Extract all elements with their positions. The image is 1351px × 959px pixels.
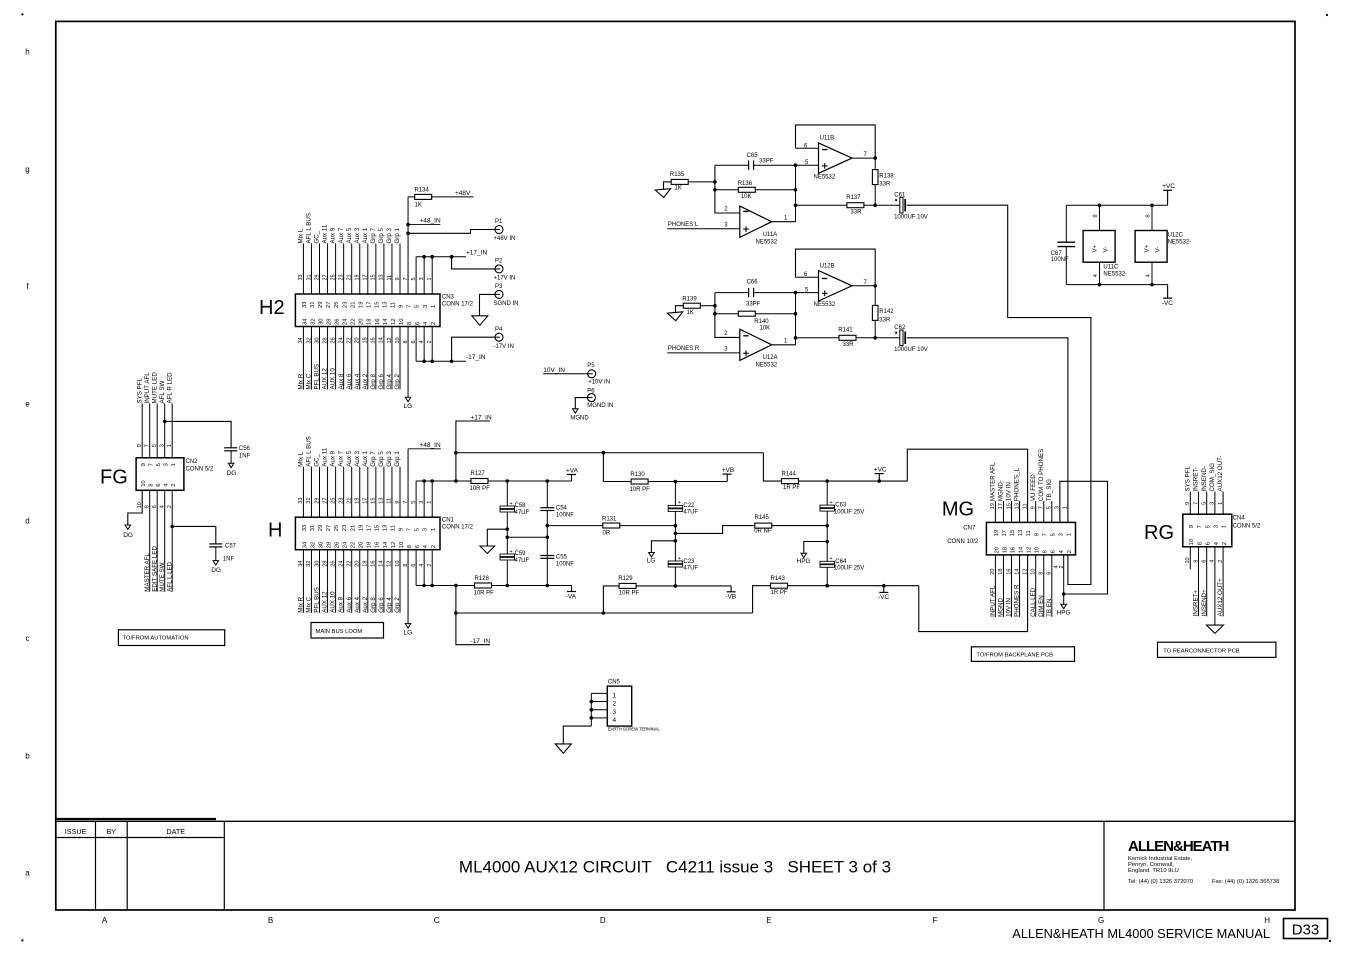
svg-text:C54: C54 <box>556 506 568 512</box>
svg-text:GC_: GC_ <box>314 453 321 466</box>
ground MGND <box>573 409 579 413</box>
svg-text:14: 14 <box>379 561 385 567</box>
svg-text:SYS PFL: SYS PFL <box>1184 465 1191 491</box>
svg-text:3: 3 <box>613 709 617 716</box>
svg-text:31: 31 <box>306 498 312 504</box>
svg-text:Fax: (44) (0) 1326 365738: Fax: (44) (0) 1326 365738 <box>1212 879 1279 885</box>
svg-text:31: 31 <box>310 525 316 531</box>
svg-text:8: 8 <box>1197 542 1203 545</box>
capacitor C63 <box>825 479 829 483</box>
svg-text:-VC: -VC <box>878 594 890 601</box>
svg-text:16: 16 <box>375 542 381 548</box>
svg-text:Grp 6: Grp 6 <box>378 597 385 613</box>
resistor R131 <box>546 524 550 528</box>
terminal P2 +17V IN <box>495 265 503 273</box>
svg-text:3: 3 <box>160 444 166 447</box>
svg-text:33: 33 <box>298 274 304 280</box>
svg-text:+17_IN: +17_IN <box>471 415 492 422</box>
wire CN7 pin 15 (10V IN) <box>1011 501 1013 522</box>
svg-text:8: 8 <box>1093 214 1099 217</box>
svg-text:-VA: -VA <box>566 593 577 600</box>
svg-text:BY: BY <box>107 827 117 836</box>
svg-text:27: 27 <box>322 498 328 504</box>
svg-text:Aux 8: Aux 8 <box>338 373 345 389</box>
svg-text:1R PF: 1R PF <box>783 485 800 491</box>
svg-text:1: 1 <box>167 444 173 447</box>
svg-text:PFL BUS: PFL BUS <box>314 364 321 390</box>
svg-text:MG: MG <box>942 499 974 521</box>
svg-text:32: 32 <box>310 542 316 548</box>
svg-text:7: 7 <box>1197 525 1203 528</box>
svg-text:34: 34 <box>302 318 308 325</box>
wire CN7 pin 20 (INPUT AFL) <box>994 555 996 617</box>
svg-text:ALLEN&HEATH: ALLEN&HEATH <box>1128 838 1229 855</box>
svg-text:25: 25 <box>330 274 336 280</box>
svg-text:AUX12 OUT-: AUX12 OUT- <box>1217 455 1224 491</box>
svg-text:6: 6 <box>156 484 162 487</box>
svg-text:16: 16 <box>371 337 377 343</box>
svg-text:Mix L: Mix L <box>298 451 305 466</box>
capacitor C56 <box>224 447 237 449</box>
svg-text:+17V IN: +17V IN <box>494 276 516 282</box>
svg-text:DIM EN: DIM EN <box>1038 595 1045 617</box>
capacitor C54 <box>546 479 550 483</box>
svg-text:3: 3 <box>1214 525 1220 528</box>
svg-text:ALLEN&HEATH ML4000 SERVICE MA: ALLEN&HEATH ML4000 SERVICE MANUAL <box>1012 926 1270 941</box>
svg-text:+48V IN: +48V IN <box>494 236 516 242</box>
svg-text:1: 1 <box>1067 533 1073 536</box>
resistor R143 <box>753 586 919 613</box>
capacitor C22 <box>674 480 678 484</box>
resistor R127 <box>471 479 488 484</box>
svg-text:7: 7 <box>1042 533 1048 536</box>
wire P6 to MGND <box>575 398 587 409</box>
svg-text:TB EN: TB EN <box>1046 599 1053 617</box>
svg-text:2: 2 <box>1067 550 1073 553</box>
svg-text:32: 32 <box>306 337 312 343</box>
svg-text:MUTE SW: MUTE SW <box>159 562 166 591</box>
svg-text:C23: C23 <box>683 559 695 565</box>
svg-text:F: F <box>933 916 938 925</box>
svg-text:10V_IN: 10V_IN <box>543 367 565 374</box>
connector CN2 (FG) body <box>136 458 184 491</box>
svg-text:10K: 10K <box>741 194 752 200</box>
svg-text:Grp 4: Grp 4 <box>386 373 393 389</box>
svg-text:LG: LG <box>647 558 656 565</box>
resistor R128 <box>475 583 492 588</box>
svg-text:MGND: MGND <box>570 416 589 422</box>
svg-text:5: 5 <box>415 528 421 531</box>
svg-text:7: 7 <box>1039 506 1045 509</box>
wire CN1 pin 14 (Grp 6) <box>383 550 385 613</box>
svg-text:PHONES_L: PHONES_L <box>1014 468 1021 502</box>
resistor R134 <box>408 196 473 198</box>
wire CN3 pin 21 (Aux 5) <box>351 244 353 295</box>
svg-text:MUTE LED: MUTE LED <box>151 372 158 404</box>
svg-text:18: 18 <box>363 337 369 343</box>
wire CN1 pin 8 to LG <box>407 550 409 624</box>
ground (analog) at C58/C59 <box>506 527 510 531</box>
connector CN3 (H2) body <box>295 294 440 327</box>
wire CN1 pin 32 (Mix C) <box>310 550 312 613</box>
IC power U12C <box>1135 231 1167 263</box>
wire CN1 pin 28 (AUX 12) <box>327 550 329 613</box>
svg-text:1: 1 <box>1218 502 1224 505</box>
svg-text:19: 19 <box>994 530 1000 536</box>
svg-text:12: 12 <box>391 319 397 325</box>
svg-text:AFL L LED: AFL L LED <box>166 561 173 591</box>
svg-text:HPG: HPG <box>797 558 811 565</box>
svg-text:8: 8 <box>407 545 413 548</box>
wire CN4 pin 4 to rear connector arrow <box>1214 547 1216 625</box>
svg-text:U12C: U12C <box>1168 233 1184 239</box>
svg-text:19: 19 <box>990 503 996 509</box>
wire CN7 pin 17 (MGND-) <box>1002 501 1004 522</box>
svg-text:1: 1 <box>1063 506 1069 509</box>
svg-text:8: 8 <box>1193 560 1199 563</box>
svg-text:10: 10 <box>141 480 147 486</box>
svg-text:CN2: CN2 <box>186 459 199 465</box>
wire +VC to MG pin 11 <box>907 449 1027 522</box>
svg-text:26: 26 <box>330 337 336 343</box>
svg-text:+VB: +VB <box>722 467 734 474</box>
wire CN1 pin 30 (PFL BUS) <box>319 550 321 613</box>
svg-text:14: 14 <box>383 318 389 325</box>
wire CN2 pin 5 (MUTE LED) <box>156 404 158 458</box>
svg-text:Aux 2: Aux 2 <box>362 373 369 389</box>
svg-text:+: + <box>678 556 681 562</box>
svg-text:30: 30 <box>318 542 324 548</box>
svg-text:C67: C67 <box>1051 251 1063 257</box>
svg-text:+17_IN: +17_IN <box>466 250 487 257</box>
svg-text:P1: P1 <box>495 219 503 225</box>
wire -VC to MG pin 12 <box>919 555 1028 632</box>
resistor R140 <box>715 313 796 315</box>
svg-text:9: 9 <box>1185 502 1191 505</box>
svg-text:Mix L: Mix L <box>298 228 305 243</box>
wire CN2 pin 1 (AFL R LED) <box>171 404 173 458</box>
wire +17 feed line <box>416 480 571 482</box>
svg-text:33R: 33R <box>850 209 862 215</box>
terminal P1 +48V IN <box>495 226 503 234</box>
svg-text:CONN 10/2: CONN 10/2 <box>947 539 979 545</box>
wire CN7 pin 3 bracket to HPG <box>1060 481 1108 594</box>
svg-text:100NF: 100NF <box>1051 257 1069 263</box>
wire CN1 pin 16 (Grp 8) <box>375 550 377 613</box>
wire CN3 pin 31 (AFL L BUS) <box>310 244 312 295</box>
ground at R139 <box>676 306 684 313</box>
wire node column <box>795 165 797 222</box>
svg-text:10R PF: 10R PF <box>470 486 491 492</box>
svg-text:33R: 33R <box>843 342 855 348</box>
label box TO REARCONNECTOR PCB <box>1158 642 1276 657</box>
svg-text:C62: C62 <box>894 325 906 331</box>
svg-text:1K: 1K <box>675 186 682 192</box>
svg-text:D33: D33 <box>1292 922 1320 939</box>
svg-text:21: 21 <box>347 274 353 280</box>
svg-text:C63: C63 <box>835 503 847 509</box>
svg-text:GC_: GC_ <box>314 230 321 243</box>
svg-text:27: 27 <box>322 274 328 280</box>
svg-text:2: 2 <box>1218 560 1224 563</box>
svg-text:U12B: U12B <box>820 263 835 269</box>
svg-text:-VB: -VB <box>725 594 736 601</box>
capacitor C61 <box>900 197 903 213</box>
svg-text:LG: LG <box>404 630 413 637</box>
wire CN3 pin 23 (Aux 7) <box>343 244 345 295</box>
wire CN1 pin 31 (AFL L BUS) <box>310 467 312 518</box>
svg-text:COM_SIG: COM_SIG <box>1209 463 1216 492</box>
wire pin 7 output U12B <box>852 285 875 287</box>
svg-text:3: 3 <box>163 463 169 466</box>
svg-text:10: 10 <box>1035 547 1041 553</box>
connector CN1 (H) body <box>295 517 440 550</box>
resistor R129 <box>603 586 731 613</box>
svg-text:Grp 2: Grp 2 <box>394 373 401 389</box>
svg-text:e: e <box>25 399 30 408</box>
svg-text:FG: FG <box>100 467 128 489</box>
wire CN7 pin 18 (MGND) <box>1002 555 1004 617</box>
wire +17 top rail <box>456 452 764 454</box>
svg-text:20: 20 <box>355 337 361 343</box>
svg-text:15: 15 <box>374 302 380 308</box>
svg-text:20: 20 <box>359 319 365 325</box>
svg-text:Grp 7: Grp 7 <box>370 227 377 243</box>
wire CN4 pin 5 (INSEND-) <box>1206 492 1208 515</box>
svg-text:16: 16 <box>1010 547 1016 553</box>
capacitor C65 <box>715 164 749 166</box>
svg-text:SGND IN: SGND IN <box>494 301 519 307</box>
capacitor C67 <box>1065 205 1067 242</box>
svg-text:+: + <box>829 500 832 506</box>
svg-text:1: 1 <box>171 463 177 466</box>
power +VB <box>723 473 732 475</box>
wire CN7 pin 10 (CALL LED) <box>1035 555 1037 617</box>
svg-text:30: 30 <box>318 319 324 325</box>
arrow to rear connector <box>1206 625 1223 633</box>
svg-text:13: 13 <box>1014 503 1020 509</box>
wire CN1 pins 5,3,1 to +17 feed <box>415 481 417 517</box>
wire CN2 pin 7 (INPUT AFL) <box>149 404 151 458</box>
svg-text:EDIT SAFE LED: EDIT SAFE LED <box>151 546 158 592</box>
wire CN3 pin 18 (Aux 2) <box>367 327 369 390</box>
capacitor C57 <box>209 543 222 545</box>
svg-text:100UF 25V: 100UF 25V <box>834 566 864 572</box>
svg-text:Aux 4: Aux 4 <box>354 596 361 612</box>
svg-text:AFL R LED: AFL R LED <box>166 372 173 404</box>
wire pin 6 feedback loop U12B <box>796 249 876 286</box>
svg-text:Grp 8: Grp 8 <box>370 373 377 389</box>
svg-text:12: 12 <box>1027 547 1033 553</box>
wire CN1 pin 29 (GC_) <box>319 467 321 518</box>
svg-text:9: 9 <box>395 501 401 504</box>
wire pin 5 U12B <box>796 292 819 294</box>
svg-text:16: 16 <box>371 561 377 567</box>
svg-text:INPUT AFL: INPUT AFL <box>144 372 151 404</box>
svg-text:47UF: 47UF <box>515 558 530 564</box>
label box TO/FROM BACKPLANE PCB <box>971 647 1074 662</box>
svg-text:P3: P3 <box>495 284 503 290</box>
svg-text:2: 2 <box>613 701 617 708</box>
svg-text:6: 6 <box>1051 550 1057 553</box>
svg-text:V+: V+ <box>1144 244 1151 252</box>
svg-text:ISSUE: ISSUE <box>65 827 87 836</box>
wire pin 7 output U11B <box>852 157 875 159</box>
wire +V rail (power block) <box>1066 204 1167 206</box>
resistor R145 <box>755 523 772 528</box>
svg-text:26: 26 <box>330 561 336 567</box>
svg-text:18: 18 <box>367 542 373 548</box>
svg-text:1000UF 10V: 1000UF 10V <box>894 347 928 353</box>
svg-text:9: 9 <box>399 528 405 531</box>
svg-text:33PF: 33PF <box>746 302 761 308</box>
svg-text:19: 19 <box>358 525 364 531</box>
wire CN7 pin 8 (DIM EN) <box>1043 555 1045 617</box>
svg-text:G: G <box>1098 916 1104 925</box>
svg-text:H2: H2 <box>259 297 285 319</box>
svg-text:R128: R128 <box>475 576 490 582</box>
wire CN1 pin 20 (Aux 4) <box>359 550 361 613</box>
svg-text:2: 2 <box>431 322 437 325</box>
svg-text:20: 20 <box>355 561 361 567</box>
wire CN1 pin 13 (Grp 5) <box>383 467 385 518</box>
svg-text:14: 14 <box>379 337 385 343</box>
svg-text:Grp 8: Grp 8 <box>370 597 377 613</box>
wire CN2 pin 4 (MUTE SW) <box>164 490 166 591</box>
svg-text:21: 21 <box>350 302 356 308</box>
svg-text:DG: DG <box>123 532 133 539</box>
resistor R141 <box>839 335 856 340</box>
svg-text:29: 29 <box>314 498 320 504</box>
svg-text:33R: 33R <box>879 318 891 324</box>
svg-text:8: 8 <box>149 484 155 487</box>
IC power U11C <box>1083 231 1115 263</box>
wire pin 6 feedback loop U11B <box>796 125 876 158</box>
wire CN3 pin 34 (Mix R) <box>302 327 304 390</box>
svg-text:INSEND+: INSEND+ <box>1201 589 1208 616</box>
svg-text:22: 22 <box>347 561 353 567</box>
svg-text:14: 14 <box>383 541 389 548</box>
svg-text:1NF: 1NF <box>239 454 251 460</box>
svg-text:PHONES R: PHONES R <box>1014 584 1021 617</box>
capacitor C64 <box>825 524 829 528</box>
svg-text:20: 20 <box>994 547 1000 553</box>
svg-text:Grp 1: Grp 1 <box>394 227 401 243</box>
ground LG (CN1) <box>405 624 411 628</box>
svg-text:3: 3 <box>423 528 429 531</box>
capacitor C58 <box>506 479 510 483</box>
wire CN1 pin 25 (Aux 9) <box>335 467 337 518</box>
ground LG <box>405 397 411 401</box>
svg-text:20: 20 <box>359 542 365 548</box>
svg-text:INSEND-: INSEND- <box>1201 466 1208 491</box>
ground HPG (CN7) <box>1061 604 1067 608</box>
power -VC (block) <box>1163 297 1172 299</box>
svg-text:B: B <box>268 916 273 925</box>
svg-text:33: 33 <box>302 302 308 308</box>
svg-text:9: 9 <box>1189 525 1195 528</box>
svg-text:+VC: +VC <box>874 466 887 473</box>
wire output line to R137 <box>796 204 900 206</box>
svg-text:5: 5 <box>415 305 421 308</box>
svg-text:22: 22 <box>351 542 357 548</box>
wire CN3 pin 20 (Aux 4) <box>359 327 361 390</box>
svg-text:PFL BUS: PFL BUS <box>314 587 321 613</box>
wire P4 to -17_IN rail <box>452 337 495 361</box>
svg-text:C58: C58 <box>515 503 527 509</box>
svg-text:+VA: +VA <box>566 467 579 474</box>
wire CN2 pin 3 (AFL SW) <box>164 404 166 458</box>
svg-text:C64: C64 <box>835 559 847 565</box>
svg-text:b: b <box>25 751 30 760</box>
svg-text:TB_SIG: TB_SIG <box>1046 479 1053 501</box>
svg-text:Aux 3: Aux 3 <box>354 450 361 466</box>
wire to P2 <box>452 257 495 269</box>
terminal P4 -17V IN <box>495 333 503 341</box>
svg-text:Grp 3: Grp 3 <box>386 451 393 467</box>
power +VC (rail) <box>878 479 882 483</box>
wire CN3 pin 27 (Aux 11) <box>327 244 329 295</box>
svg-text:R134: R134 <box>415 188 430 194</box>
svg-text:Aux 2: Aux 2 <box>362 596 369 612</box>
svg-text:CONN 17/2: CONN 17/2 <box>442 525 474 531</box>
svg-text:R129: R129 <box>618 576 633 582</box>
power -VC (rail) <box>882 584 886 588</box>
svg-text:2: 2 <box>431 545 437 548</box>
svg-text:R138: R138 <box>879 173 894 179</box>
svg-text:U12A: U12A <box>763 355 778 361</box>
power -VB <box>727 591 736 593</box>
svg-text:Aux 3: Aux 3 <box>354 227 361 243</box>
svg-text:V-: V- <box>1155 247 1162 253</box>
svg-text:CALL LED: CALL LED <box>1030 587 1037 617</box>
svg-text:TO REARCONNECTOR PCB: TO REARCONNECTOR PCB <box>1163 648 1240 654</box>
wire CN4 pin 1 (AUX12 OUT-) <box>1222 492 1224 515</box>
svg-text:5: 5 <box>1205 525 1211 528</box>
svg-text:15: 15 <box>371 498 377 504</box>
svg-text:Grp 5: Grp 5 <box>378 451 385 467</box>
svg-text:27: 27 <box>326 525 332 531</box>
wire to R145 jog <box>674 532 678 536</box>
wire CN1 pin 10 (Grp 2) <box>399 550 401 613</box>
wire +48 from CN3 pin 7 <box>407 197 409 294</box>
svg-text:28: 28 <box>326 542 332 548</box>
svg-text:10V IN: 10V IN <box>1006 598 1013 617</box>
wire CN3 pin 12 (Grp 4) <box>391 327 393 390</box>
svg-text:25: 25 <box>330 498 336 504</box>
svg-text:24: 24 <box>338 561 344 567</box>
svg-text:Grp 7: Grp 7 <box>370 451 377 467</box>
wire U11C pin 8 <box>1099 205 1101 230</box>
label box TO/FROM AUTOMATION <box>118 630 224 646</box>
svg-text:R127: R127 <box>471 471 486 477</box>
svg-text:MGND IN: MGND IN <box>587 403 613 409</box>
svg-text:AUX 10: AUX 10 <box>330 368 337 390</box>
svg-text:SYS PFL: SYS PFL <box>136 377 143 403</box>
svg-text:13: 13 <box>1018 530 1024 536</box>
resistor R130 <box>603 453 727 482</box>
svg-text:-17V IN: -17V IN <box>494 344 514 350</box>
svg-text:10: 10 <box>395 561 401 567</box>
svg-text:CONN 5/2: CONN 5/2 <box>1233 523 1261 529</box>
svg-text:34: 34 <box>298 561 304 567</box>
svg-text:PHONES R: PHONES R <box>668 346 700 352</box>
svg-text:Grp 3: Grp 3 <box>386 227 393 243</box>
svg-text:30: 30 <box>314 337 320 343</box>
wire CN3 pin 32 (Mix C) <box>310 327 312 390</box>
svg-text:H: H <box>1264 916 1270 925</box>
svg-text:9: 9 <box>395 277 401 280</box>
